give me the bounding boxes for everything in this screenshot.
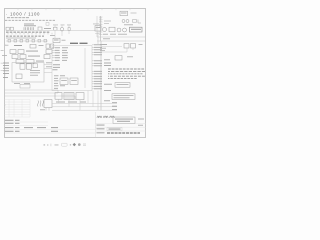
toolbar icon plus	[47, 144, 48, 145]
wide box lower	[112, 94, 135, 100]
wide box text 2	[114, 96, 130, 99]
wire bus row 3	[5, 95, 75, 97]
tb sheet label	[138, 118, 144, 121]
valve W1	[97, 116, 102, 118]
label under sensors	[124, 23, 133, 26]
tb doc number	[107, 132, 140, 134]
tiny aux component	[46, 22, 49, 25]
cap drop 2	[132, 48, 134, 50]
wire bus row 2	[5, 92, 58, 94]
bottom bus 3	[52, 109, 117, 111]
sensor mark	[133, 20, 137, 23]
box mid right	[115, 83, 130, 88]
second terminal text row	[6, 37, 36, 40]
toolbar circle	[78, 143, 81, 146]
right comp box	[109, 27, 115, 32]
label C22	[24, 24, 36, 27]
subtitle line 1	[7, 17, 29, 19]
terminal row ticks	[8, 33, 52, 35]
frame row tick left 2	[5, 74, 7, 76]
label mid right	[104, 83, 112, 86]
page background	[0, 0, 150, 150]
top right corner box	[120, 11, 128, 15]
capacitor C2	[50, 44, 53, 48]
relay box text	[131, 28, 141, 31]
relay K1	[30, 44, 36, 48]
aux box top	[95, 26, 101, 31]
wire riser 2	[74, 96, 76, 100]
ic U3 text	[71, 79, 77, 82]
varistor group	[8, 39, 47, 42]
connector J2 hatch	[64, 93, 74, 100]
input terminal N	[10, 27, 13, 30]
tb label 3	[97, 131, 105, 134]
heater body	[44, 100, 52, 108]
rectifier module B	[26, 64, 31, 69]
valve Y2	[20, 55, 26, 59]
board output wires	[44, 65, 52, 73]
right vertical feed 1	[96, 16, 98, 37]
connector J3	[76, 93, 84, 100]
name row	[5, 130, 14, 133]
right bus 2	[97, 40, 146, 42]
revision table grid	[5, 100, 31, 118]
box text	[117, 83, 129, 86]
ctrl right pin labels	[94, 44, 102, 89]
mark beside	[127, 55, 133, 58]
power board outline	[12, 63, 44, 82]
switch S1	[54, 27, 58, 30]
ctrl internal bus	[84, 48, 86, 88]
wire labels right of board	[46, 61, 52, 64]
connector labels	[56, 101, 65, 104]
title block hlines	[96, 123, 147, 125]
ic U3	[70, 78, 78, 84]
label row	[26, 50, 38, 53]
svg-text:· 1000 / 1100: · 1000 / 1100	[6, 11, 40, 16]
bracket sym	[138, 20, 141, 24]
capacitor C3	[46, 50, 52, 54]
notes text block	[108, 69, 145, 79]
rectifier module C	[33, 64, 38, 68]
capacitor C4	[44, 55, 50, 59]
heater label	[40, 108, 45, 111]
tb cell text	[109, 128, 121, 131]
right pin label 1	[104, 62, 111, 65]
pin stubs on feed lines	[95, 18, 102, 34]
breaker side label	[62, 39, 66, 42]
input terminal L	[6, 27, 9, 30]
frame column ticks	[18, 9, 130, 11]
wide relay box	[130, 27, 143, 32]
value labels under right components	[103, 33, 127, 36]
wire horiz mid	[101, 51, 128, 53]
right bus 1	[97, 36, 146, 38]
value labels above top components	[53, 24, 99, 26]
capacitor C1	[46, 44, 49, 48]
paper area	[5, 9, 146, 138]
wire bus row 1	[5, 89, 58, 91]
terminal strip X2 labels	[6, 35, 44, 37]
toolbar zoom pill	[62, 143, 68, 146]
label row	[28, 55, 40, 58]
label lower	[104, 89, 111, 92]
label top right faint	[104, 20, 111, 23]
datum cell 2	[24, 126, 33, 129]
revision row 1	[5, 119, 14, 122]
valve Y1	[12, 55, 18, 59]
relay K2	[10, 50, 16, 54]
transformer T2	[26, 60, 34, 64]
ctrl pin ticks left	[52, 48, 55, 61]
label row	[36, 60, 44, 63]
drop to bus b	[68, 100, 70, 107]
right text rows under bus	[100, 47, 106, 50]
datum cell 4	[51, 126, 58, 129]
connector J1	[55, 93, 62, 100]
toolbar lines icon	[83, 143, 86, 146]
bottom bus 1	[52, 102, 117, 104]
heater hatch	[38, 101, 44, 107]
lamp H1	[60, 28, 64, 32]
datum row	[5, 126, 14, 129]
wire drop from aux	[97, 31, 99, 44]
relay K3	[18, 50, 24, 54]
tiny row label	[5, 44, 8, 47]
center breaker sym	[53, 38, 60, 42]
right vertical feed 2	[100, 16, 102, 41]
motor M2	[123, 28, 127, 32]
tb label 1	[97, 124, 105, 127]
right mid hline	[101, 46, 122, 48]
tb label 2	[97, 127, 105, 130]
corner box side label	[131, 12, 137, 15]
subtitle line 2	[5, 19, 55, 21]
drop to bus a	[58, 100, 60, 104]
company box	[113, 117, 135, 123]
label top right faint 2	[104, 22, 109, 25]
controller board outline	[52, 46, 92, 91]
ic U2	[60, 78, 68, 84]
wide box text 1	[114, 94, 134, 97]
regulator module	[16, 74, 22, 79]
ctrl right pin ticks	[92, 45, 94, 89]
bottom bus 2	[52, 106, 117, 108]
name cell 2	[51, 130, 58, 133]
aux box text	[96, 26, 100, 29]
toolbar dot	[70, 144, 71, 145]
ic U2 text	[61, 79, 67, 82]
label row K	[14, 44, 22, 47]
wire drops top center	[55, 30, 69, 38]
board text 2	[30, 71, 40, 74]
ctrl mid labels	[53, 63, 60, 66]
toolbar diamond	[73, 143, 76, 146]
valve W2	[103, 116, 108, 118]
sensor pair	[122, 20, 125, 23]
transformer T1	[16, 60, 24, 64]
pin label	[104, 99, 110, 102]
board bottom labels	[14, 82, 20, 85]
right bus vertical	[100, 41, 102, 110]
right pin label 2	[104, 64, 111, 67]
toolbar icon rotate	[44, 144, 46, 145]
mark right	[139, 43, 143, 46]
feed ladder ticks	[99, 17, 103, 35]
board text 3	[30, 74, 38, 77]
right comp circle	[103, 28, 107, 32]
drop to bus c	[79, 100, 81, 111]
connector X10 hatch	[24, 27, 34, 30]
breaker label	[54, 39, 59, 42]
title block vline	[95, 112, 97, 138]
board title +12V	[80, 43, 88, 44]
drawing frame	[5, 9, 146, 138]
rectifier module A	[20, 64, 25, 69]
revision row 2	[5, 122, 14, 125]
fuse F1	[68, 28, 70, 31]
cap pair B	[131, 44, 136, 48]
filter Z1	[38, 27, 42, 30]
valve W3	[110, 116, 115, 118]
label net	[39, 44, 44, 47]
frame row tick left	[5, 44, 7, 46]
wire riser	[57, 90, 59, 93]
label net L	[44, 27, 51, 30]
terminal row labels	[6, 31, 50, 33]
thermostat box	[20, 84, 30, 88]
company text 1	[115, 118, 133, 121]
motor M1	[117, 28, 121, 32]
right pin label extra	[104, 58, 110, 61]
title block divider lines	[5, 128, 96, 130]
margin tick r1	[1, 62, 4, 65]
toolbar icon dash	[55, 144, 59, 145]
board text 1	[30, 69, 40, 72]
tb cell box	[107, 128, 122, 131]
toolbar icon sep	[50, 144, 53, 147]
datum cell 3	[37, 126, 46, 129]
board title +5V	[70, 43, 78, 44]
company text 2	[117, 120, 130, 123]
corner box text	[121, 12, 127, 15]
margin label b	[2, 54, 7, 57]
top center lamp wire	[55, 25, 69, 27]
tb sheet num	[138, 124, 143, 127]
revision line 1	[5, 121, 49, 123]
frame row tick left 3	[5, 104, 7, 106]
wire distribution	[6, 40, 48, 42]
cap pair A	[124, 44, 129, 48]
revision line 2	[5, 124, 49, 126]
margin label a	[1, 49, 4, 52]
wire mains bus	[6, 29, 95, 31]
heater pins	[46, 108, 49, 111]
wire drop caps	[126, 48, 128, 52]
net label on bus	[103, 37, 110, 40]
label right	[100, 43, 107, 46]
pin labels left col	[3, 63, 9, 78]
small box mid right	[115, 56, 122, 60]
ctrl pin rows left	[55, 47, 68, 60]
margin tick r2	[1, 69, 4, 72]
wire drops board right	[88, 91, 98, 111]
ctrl pin rows left lower	[54, 75, 65, 88]
bus end marks	[112, 101, 117, 104]
label above	[50, 34, 55, 37]
label C21	[24, 23, 34, 26]
